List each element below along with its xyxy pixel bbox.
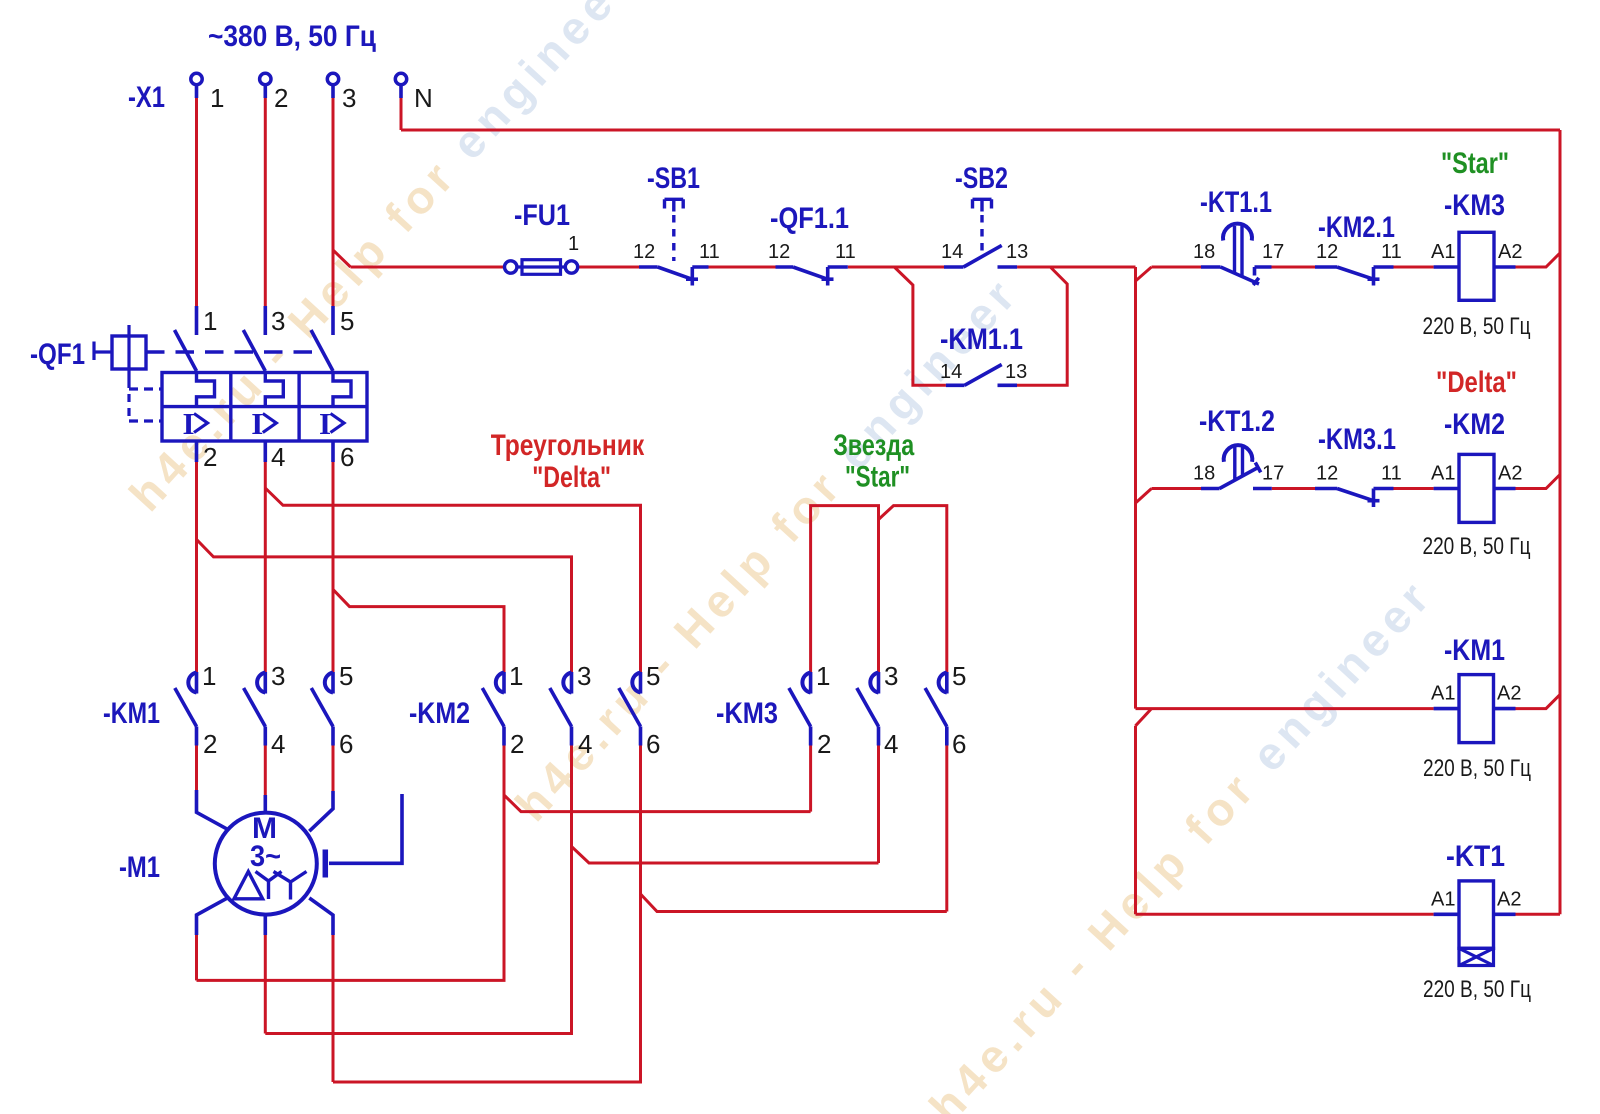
wire row1 bus to KT1.1 — [1152, 266, 1202, 269]
terminal X1:3 — [327, 73, 338, 84]
svg-text:5: 5 — [646, 661, 660, 691]
wire SB1 to QF1.1 — [709, 266, 776, 269]
motor M1 winding symbol star 1 — [256, 872, 282, 900]
svg-text:"Delta": "Delta" — [532, 461, 611, 494]
svg-text:12: 12 — [768, 241, 790, 263]
wire L1 branch to KM2 pin3 — [197, 539, 572, 672]
terminal X1:N — [395, 73, 406, 84]
motor M1 lead V2 — [263, 915, 267, 935]
contactor KM1 contact 1-2 — [195, 672, 199, 694]
contact KT1.1 time delay NO — [1201, 265, 1221, 269]
svg-text:220 В, 50 Гц: 220 В, 50 Гц — [1423, 533, 1531, 560]
wire SB2 to left bus — [1017, 266, 1135, 269]
svg-text:-KT1.1: -KT1.1 — [1200, 186, 1272, 219]
wire bus U2 to KM2 pin2 — [197, 746, 505, 981]
svg-text:A1: A1 — [1431, 463, 1455, 485]
breaker QF1 pole1 contact — [195, 306, 199, 335]
svg-text:4: 4 — [271, 729, 285, 759]
motor M1 lead W1 — [309, 791, 333, 831]
wire L3 branch to KM2 pin1 — [333, 589, 504, 672]
svg-text:-SB1: -SB1 — [647, 162, 700, 195]
svg-text:A1: A1 — [1431, 683, 1455, 705]
wire row4 bus to KT1 coil — [1136, 913, 1434, 916]
svg-text:-KM3.1: -KM3.1 — [1318, 423, 1396, 456]
svg-text:3: 3 — [884, 661, 898, 691]
coil KT1 timer — [1459, 881, 1494, 948]
terminal X1:1 — [191, 73, 202, 84]
button SB1 NC contact — [639, 265, 658, 269]
breaker QF1 heater pole3 — [333, 373, 351, 407]
svg-text:-KM1.1: -KM1.1 — [940, 323, 1023, 356]
wire motor U2 down — [195, 935, 198, 980]
motor M1 lead W2 — [309, 898, 333, 935]
svg-text:"Star": "Star" — [845, 461, 910, 494]
svg-text:2: 2 — [510, 729, 524, 759]
svg-text:5: 5 — [339, 661, 353, 691]
svg-text:11: 11 — [835, 241, 856, 263]
svg-text:6: 6 — [340, 442, 354, 472]
wire KM1.1 bypass left — [894, 267, 946, 385]
svg-text:4: 4 — [578, 729, 592, 759]
svg-text:2: 2 — [817, 729, 831, 759]
svg-text:3: 3 — [577, 661, 591, 691]
svg-text:1: 1 — [509, 661, 523, 691]
motor M1 frame terminal — [323, 850, 329, 878]
wire KT1 coil to right bus — [1516, 913, 1561, 916]
wire FU1 to SB1 — [578, 266, 639, 269]
motor M1 body — [215, 813, 317, 915]
breaker QF1 trip linkage dashed — [127, 380, 130, 421]
wire top N bus — [401, 129, 1560, 132]
svg-text:3~: 3~ — [250, 840, 281, 873]
svg-text:A2: A2 — [1497, 683, 1521, 705]
wire KT1.2 to KM3.1 — [1272, 487, 1315, 490]
button SB2 actuator — [973, 199, 992, 211]
svg-text:11: 11 — [1381, 241, 1402, 263]
breaker QF1 mechanism box — [112, 336, 146, 369]
svg-text:1: 1 — [568, 233, 579, 255]
watermark h4e.ru instance C — [919, 573, 1438, 1114]
wire KM3 coil to right bus — [1516, 253, 1561, 267]
svg-text:~380 В, 50 Гц: ~380 В, 50 Гц — [208, 20, 376, 53]
coil KM2 — [1459, 454, 1494, 522]
button SB1 actuator — [665, 199, 684, 211]
contactor KM3 contact 5-6 — [945, 672, 949, 694]
svg-text:N: N — [414, 83, 433, 113]
svg-text:2: 2 — [274, 83, 288, 113]
svg-text:17: 17 — [1262, 241, 1284, 263]
svg-text:-KM1: -KM1 — [1444, 634, 1505, 667]
wire KM3 pin6 drop — [945, 746, 948, 912]
svg-text:-KM3: -KM3 — [716, 697, 778, 730]
wire QF1 pin2 down to KM1 pin1 — [195, 462, 198, 673]
svg-text:12: 12 — [633, 241, 655, 263]
wire motor V2 down — [264, 935, 267, 1034]
svg-text:A2: A2 — [1498, 463, 1522, 485]
wire L1 drop from terminal 1 to QF1 pin1 — [195, 98, 198, 306]
button SB2 NO contact — [944, 265, 964, 269]
node bus fillet row1 — [1136, 267, 1152, 281]
svg-text:3: 3 — [271, 661, 285, 691]
svg-text:-SB2: -SB2 — [955, 162, 1008, 195]
breaker QF1 bottom pins — [197, 441, 334, 462]
wire KM2 coil to right bus — [1516, 475, 1561, 489]
contact KM3.1 NC aux — [1315, 487, 1337, 491]
contact KM1.1 NO aux — [946, 383, 965, 387]
svg-text:Треугольник: Треугольник — [491, 429, 645, 462]
wire KM1 coil to right bus — [1516, 695, 1561, 709]
breaker QF1 heater pole2 — [265, 373, 283, 407]
wire L2 branch to KM2 pin5 — [265, 488, 640, 672]
contact QF1.1 NC aux — [776, 265, 794, 269]
wire QF1 pin4 down to KM1 pin3 — [264, 462, 267, 673]
contactor KM2 contact 5-6 — [639, 672, 643, 694]
svg-text:A2: A2 — [1498, 241, 1522, 263]
contactor KM3 contact 1-2 — [809, 672, 813, 694]
svg-text:I: I — [183, 406, 195, 441]
wire bus W2 to KM2 pin6 — [333, 746, 641, 1083]
wire N drop — [400, 98, 403, 130]
svg-text:"Star": "Star" — [1441, 147, 1509, 180]
svg-text:1: 1 — [210, 83, 224, 113]
node bus fillet row2 — [1136, 489, 1152, 504]
wire motor earth — [329, 794, 402, 863]
coil KM3 — [1459, 232, 1494, 300]
svg-text:-M1: -M1 — [119, 851, 160, 884]
svg-text:4: 4 — [271, 442, 285, 472]
contactor KM2 contact 3-4 — [570, 672, 574, 694]
svg-text:220 В, 50 Гц: 220 В, 50 Гц — [1423, 755, 1531, 782]
breaker QF1 thermal unit body — [162, 373, 367, 442]
wire control feed to FU1 — [351, 266, 505, 269]
svg-text:13: 13 — [1005, 361, 1027, 383]
svg-text:-QF1.1: -QF1.1 — [770, 202, 849, 235]
svg-text:2: 2 — [203, 442, 217, 472]
svg-text:12: 12 — [1316, 463, 1338, 485]
wire KM1 pin4 to motor V1 — [264, 746, 267, 796]
svg-text:4: 4 — [884, 729, 898, 759]
svg-text:1: 1 — [202, 661, 216, 691]
wire KM3 pin4 drop — [877, 746, 880, 864]
breaker QF1 heater pole1 — [197, 373, 215, 407]
contact KM2.1 NC aux — [1315, 265, 1337, 269]
contactor KM1 contact 5-6 — [331, 672, 335, 694]
svg-text:A2: A2 — [1497, 889, 1521, 911]
coil KM1 — [1459, 675, 1494, 743]
svg-text:5: 5 — [340, 306, 354, 336]
wire bus V2 to KM2 pin4 — [265, 746, 571, 1034]
svg-text:-KM2.1: -KM2.1 — [1318, 211, 1395, 244]
svg-text:11: 11 — [699, 241, 720, 263]
wire L3 drop from terminal 3 to QF1 pin5 — [332, 98, 335, 306]
wire KM2.1 to KM3 coil — [1394, 266, 1434, 269]
terminal X1:2 — [260, 73, 271, 84]
contactor KM3 contact 3-4 — [877, 672, 881, 694]
contactor KM1 contact 3-4 — [263, 672, 267, 694]
svg-text:A1: A1 — [1431, 889, 1455, 911]
svg-text:-KM3: -KM3 — [1444, 189, 1505, 222]
svg-text:2: 2 — [203, 729, 217, 759]
wire QF1.1 to SB2 — [848, 266, 944, 269]
svg-text:1: 1 — [203, 306, 217, 336]
breaker QF1 pole link dashed — [146, 350, 313, 353]
node control tap on L3 — [333, 250, 351, 267]
svg-text:6: 6 — [339, 729, 353, 759]
watermark h4e.ru instance B — [505, 271, 1024, 831]
breaker QF1 handle link — [94, 342, 112, 361]
breaker QF1 pole2 contact — [263, 306, 267, 335]
svg-text:-KT1: -KT1 — [1446, 840, 1505, 873]
svg-text:-KM2: -KM2 — [409, 697, 470, 730]
node star point wiring above KM3 — [811, 506, 879, 673]
wire KM3.1 to KM2 coil — [1394, 487, 1434, 490]
svg-text:-KT1.2: -KT1.2 — [1199, 405, 1275, 438]
svg-text:12: 12 — [1316, 241, 1338, 263]
svg-text:14: 14 — [940, 361, 962, 383]
svg-text:I: I — [319, 406, 331, 441]
watermark h4e.ru instance A — [119, 0, 638, 521]
svg-text:A1: A1 — [1431, 241, 1455, 263]
svg-text:3: 3 — [271, 306, 285, 336]
motor M1 lead U2 — [197, 898, 227, 935]
wire KM3 pin2 drop — [809, 746, 812, 812]
svg-text:-QF1: -QF1 — [30, 338, 85, 371]
wire motor W2 down — [332, 935, 335, 1082]
svg-text:14: 14 — [941, 241, 963, 263]
svg-text:13: 13 — [1006, 241, 1028, 263]
wire row3 bus to KM1 coil — [1136, 707, 1434, 710]
motor M1 winding symbol delta — [234, 872, 263, 899]
breaker QF1 pole3 contact — [331, 306, 335, 335]
svg-text:3: 3 — [342, 83, 356, 113]
svg-text:-KM1: -KM1 — [103, 697, 160, 730]
svg-text:18: 18 — [1193, 241, 1215, 263]
motor M1 lead V1 — [263, 795, 267, 813]
svg-text:"Delta": "Delta" — [1436, 366, 1517, 399]
svg-text:I: I — [251, 406, 263, 441]
motor M1 winding symbol star 2 — [274, 872, 307, 900]
svg-text:Звезда: Звезда — [833, 429, 914, 462]
svg-text:220 В, 50 Гц: 220 В, 50 Гц — [1423, 976, 1531, 1003]
node bus fillet row3 — [1136, 709, 1152, 726]
svg-text:-FU1: -FU1 — [514, 199, 570, 232]
wire left control bus — [1134, 267, 1137, 709]
contactor KM2 contact 1-2 — [502, 672, 506, 694]
svg-text:18: 18 — [1193, 463, 1215, 485]
wire KM1.1 bypass right — [1017, 267, 1067, 385]
svg-text:6: 6 — [952, 729, 966, 759]
wire KM2 pin2 branch to KM3 pin2 — [504, 795, 811, 812]
wire KT1.1 to KM2.1 — [1272, 266, 1316, 269]
wire KM1 pin2 to motor U1 — [195, 746, 198, 791]
wire right N bus — [1559, 130, 1562, 914]
wire KM2 pin6 branch to KM3 pin6 — [641, 894, 947, 912]
wire L2 drop from terminal 2 to QF1 pin3 — [264, 98, 267, 306]
svg-text:6: 6 — [646, 729, 660, 759]
svg-text:5: 5 — [952, 661, 966, 691]
svg-text:11: 11 — [1381, 463, 1402, 485]
svg-text:-KM2: -KM2 — [1444, 408, 1505, 441]
motor M1 lead U1 — [197, 790, 227, 829]
wire KM2 pin4 branch to KM3 pin4 — [572, 847, 879, 864]
svg-text:220 В, 50 Гц: 220 В, 50 Гц — [1423, 313, 1531, 340]
fuse FU1 — [505, 261, 517, 273]
contact KT1.2 time delay — [1201, 487, 1220, 491]
svg-text:17: 17 — [1262, 463, 1284, 485]
wire row2 bus to KT1.2 — [1152, 487, 1202, 490]
svg-text:-X1: -X1 — [128, 81, 165, 114]
svg-text:1: 1 — [816, 661, 830, 691]
wire QF1 pin6 down to KM1 pin5 — [332, 462, 335, 673]
wire KM1 pin6 to motor W1 — [332, 746, 335, 792]
